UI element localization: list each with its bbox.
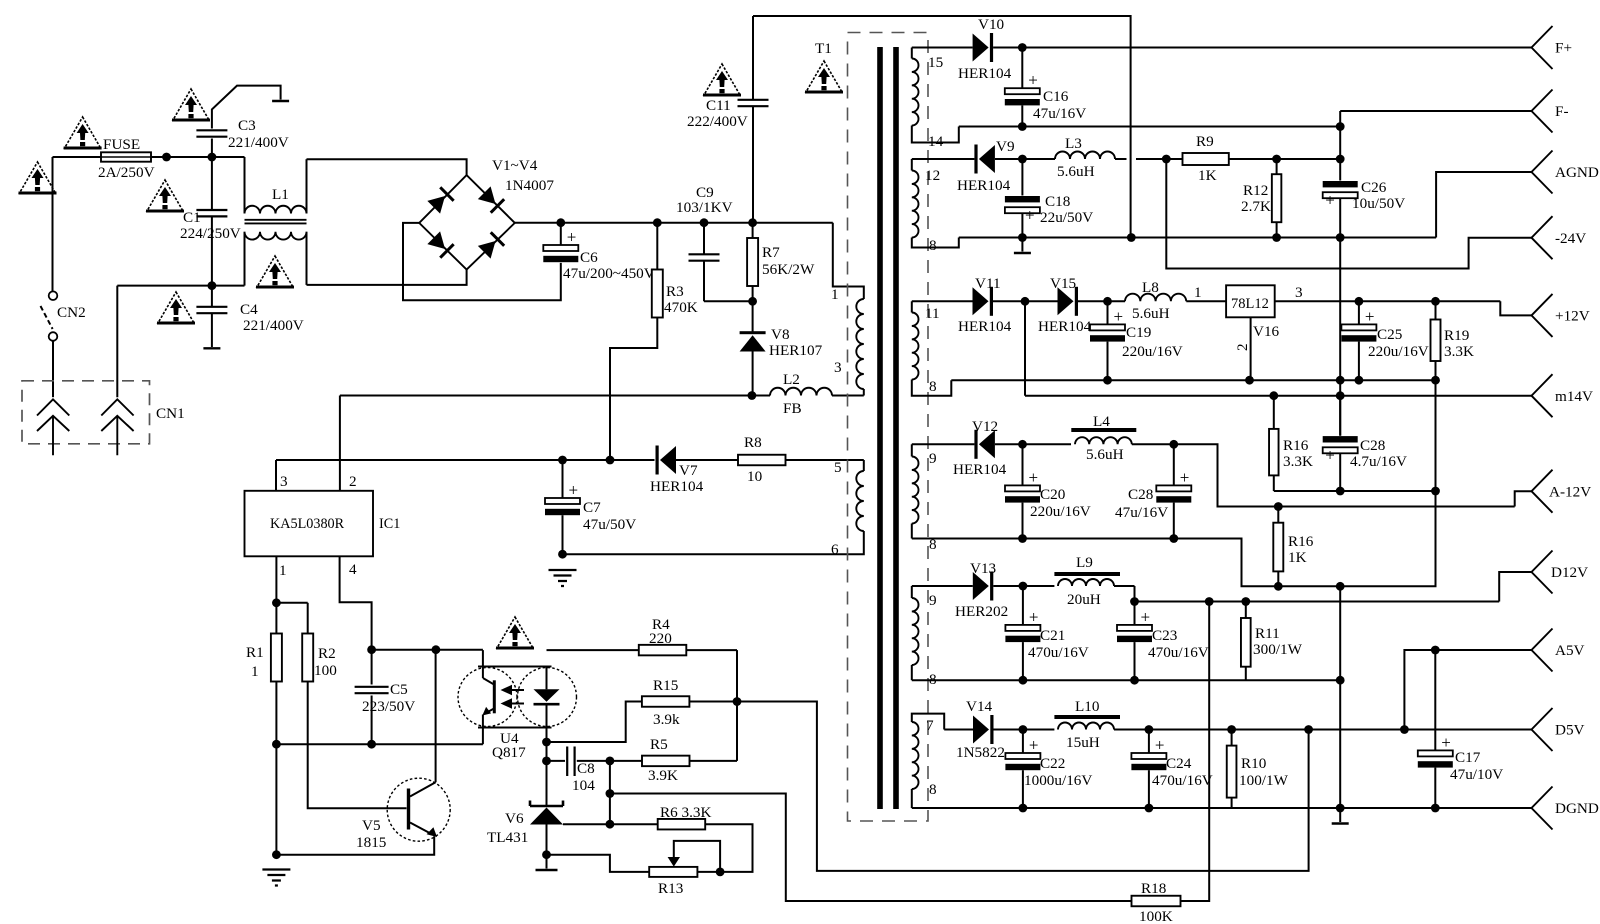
junction R16a top <box>1269 391 1278 400</box>
wire R4 row <box>547 649 639 651</box>
junction R16b top <box>1274 502 1283 511</box>
transformer core bar left <box>877 47 883 809</box>
svg-text:4.7u/16V: 4.7u/16V <box>1350 453 1407 470</box>
C23 plates <box>1117 607 1152 642</box>
junction R15 right <box>733 697 742 706</box>
svg-text:47u/16V: 47u/16V <box>1115 504 1168 521</box>
junction C7 top <box>558 456 567 465</box>
junction C19 top <box>1103 297 1112 306</box>
wire D5V rail <box>1114 729 1532 731</box>
C22 plates <box>1005 736 1040 771</box>
svg-text:1N5822: 1N5822 <box>956 744 1005 761</box>
svg-text:V15: V15 <box>1050 275 1076 292</box>
fuse FUSE 2A/250V <box>101 152 151 161</box>
junction R12 bottom <box>1272 233 1281 242</box>
wire emitter return rail <box>276 743 483 745</box>
connector CN1 dashed box <box>22 381 150 444</box>
junction DGND rail <box>1336 804 1345 813</box>
junction C7 bottom / pin6 <box>558 550 567 559</box>
svg-text:47u/200~450V: 47u/200~450V <box>563 265 655 282</box>
svg-text:15uH: 15uH <box>1066 734 1100 751</box>
warning triangle left of C1 <box>146 180 184 211</box>
svg-text:C4: C4 <box>240 301 258 318</box>
svg-text:L2: L2 <box>783 371 800 388</box>
R13 wiper arrow <box>674 841 720 872</box>
svg-text:+: + <box>567 228 577 247</box>
svg-text:L4: L4 <box>1093 413 1110 430</box>
wire R18 to D12V rail <box>1181 602 1210 902</box>
svg-text:+: + <box>1028 71 1038 90</box>
junction C16 top <box>1018 43 1027 52</box>
wire ref node vertical <box>609 761 611 824</box>
svg-text:C18: C18 <box>1045 193 1071 210</box>
wire DGND rail <box>912 807 1532 809</box>
junction R19 top <box>1431 297 1440 306</box>
wire m14V rail <box>1025 395 1533 397</box>
junction C20 top <box>1018 440 1027 449</box>
transformer T1 dashed box <box>848 33 929 822</box>
capacitor C21 <box>1022 586 1024 624</box>
svg-text:R15: R15 <box>653 677 678 694</box>
svg-text:C28: C28 <box>1128 486 1154 503</box>
output terminal D12V <box>1532 551 1553 594</box>
diode V14 <box>973 715 994 744</box>
output terminal DGND <box>1532 787 1553 830</box>
wire F- lead <box>1340 110 1531 112</box>
junction L3/R9/-24V tap <box>1162 155 1171 164</box>
wire FB line to IC pin2 <box>340 395 770 397</box>
wire to R2 top <box>276 602 307 604</box>
C4 plates <box>196 307 227 313</box>
junction LED cathode / C8 <box>542 757 551 766</box>
warning triangle above U4 <box>496 617 534 648</box>
svg-text:C5: C5 <box>390 681 408 698</box>
capacitor C17 <box>1434 650 1436 750</box>
wire A5V lead <box>1404 650 1531 730</box>
resistor R6 <box>658 819 706 830</box>
diode V8 <box>752 301 754 331</box>
inductor L3 <box>1055 152 1115 160</box>
wire pin8 AGND rail <box>959 237 1436 239</box>
junction C28b bottom <box>1336 487 1345 496</box>
svg-text:9: 9 <box>929 450 937 467</box>
capacitor C24 <box>1148 730 1150 753</box>
resistor R15 <box>642 696 690 707</box>
transformer secondary winding 9-8 (D12V) <box>911 586 913 598</box>
optocoupler U4 <box>458 667 577 728</box>
svg-text:1: 1 <box>1194 284 1202 301</box>
junction R16b bottom <box>1274 582 1283 591</box>
wire D12V rail right <box>1135 601 1500 603</box>
junction C25 top <box>1355 297 1364 306</box>
svg-text:L3: L3 <box>1065 135 1082 152</box>
C6 plates <box>543 228 578 263</box>
C5 plates <box>355 687 389 693</box>
wire CN2 to CN1 pin <box>52 341 54 397</box>
junction ground rail left <box>272 850 281 859</box>
transformer secondary winding 12-8 <box>911 159 913 171</box>
resistor R9 <box>1183 153 1229 165</box>
R3 body <box>652 270 663 318</box>
junction C22 top <box>1019 725 1028 734</box>
wire IC1 pin2 stub <box>339 396 341 491</box>
svg-text:+: + <box>1325 446 1335 465</box>
junction ref/R18 branch <box>606 789 615 798</box>
svg-text:470K: 470K <box>664 299 698 316</box>
R1 body <box>271 634 282 682</box>
output terminal F- <box>1532 90 1553 133</box>
svg-text:R1: R1 <box>246 644 264 661</box>
svg-text:C3: C3 <box>238 117 256 134</box>
svg-text:R5: R5 <box>650 736 668 753</box>
inductor L10 <box>1054 715 1120 719</box>
C3 plates <box>196 130 227 136</box>
junction C23 top <box>1130 597 1139 606</box>
svg-text:C25: C25 <box>1377 326 1402 343</box>
wire C9 bottom to V8 top <box>704 300 753 302</box>
svg-text:HER104: HER104 <box>957 177 1011 194</box>
capacitor C5 <box>371 650 373 685</box>
svg-text:V13: V13 <box>970 560 996 577</box>
svg-text:HER104: HER104 <box>1038 318 1092 335</box>
None <box>656 446 677 475</box>
junction m14V tap <box>1021 297 1030 306</box>
junction 78L12 pin2 <box>1245 376 1254 385</box>
junction C18 top <box>1018 155 1027 164</box>
junction R7/V8/C9 <box>748 297 757 306</box>
capacitor C18 <box>1021 159 1023 196</box>
junction LED cathode / R15 branch <box>542 738 551 747</box>
wire pin14 rail <box>959 126 1340 128</box>
svg-text:R6 3.3K: R6 3.3K <box>660 804 712 821</box>
junction C26 bottom <box>1336 233 1345 242</box>
junction C20 bottom <box>1018 534 1027 543</box>
wire CN1 pin2 up to AC return <box>116 286 118 398</box>
switch CN2 <box>41 291 58 340</box>
terminal bar below C18 <box>1014 252 1031 254</box>
wire pin7 row D5V <box>944 729 973 731</box>
wire C8 to R5 <box>577 760 642 762</box>
wire V5 emitter to ground rail <box>276 836 434 855</box>
svg-text:C6: C6 <box>580 249 598 266</box>
R16b body <box>1273 523 1283 572</box>
junction C22 bottom <box>1019 804 1028 813</box>
wire snubber return to pin8 rail <box>753 16 1131 238</box>
U4 phototransistor <box>482 678 496 716</box>
svg-text:+: + <box>1029 736 1039 755</box>
svg-text:78L12: 78L12 <box>1231 296 1269 312</box>
svg-text:A5V: A5V <box>1555 642 1585 659</box>
C28a plates <box>1156 468 1191 503</box>
svg-text:R19: R19 <box>1444 327 1469 344</box>
svg-text:5.6uH: 5.6uH <box>1132 305 1170 322</box>
svg-text:12: 12 <box>925 167 940 184</box>
svg-text:-24V: -24V <box>1555 230 1586 247</box>
svg-text:3.3K: 3.3K <box>1283 453 1313 470</box>
junction C21 top <box>1019 582 1028 591</box>
resistor R7 <box>752 223 754 238</box>
resistor R1 <box>275 603 277 634</box>
junction C16 bottom <box>1018 122 1027 131</box>
svg-text:22u/50V: 22u/50V <box>1040 209 1093 226</box>
svg-text:470u/16V: 470u/16V <box>1148 644 1209 661</box>
svg-text:1: 1 <box>251 663 259 680</box>
svg-text:FUSE: FUSE <box>103 136 140 153</box>
capacitor C16 <box>1021 48 1023 88</box>
svg-text:C8: C8 <box>577 760 595 777</box>
junction C24 bottom <box>1145 804 1154 813</box>
svg-text:2A/250V: 2A/250V <box>98 164 155 181</box>
wire R15 branch <box>547 702 642 743</box>
svg-text:HER202: HER202 <box>955 603 1008 620</box>
diode V9 <box>974 145 995 174</box>
svg-text:C23: C23 <box>1152 627 1177 644</box>
diode V13 <box>973 572 994 601</box>
svg-text:R13: R13 <box>658 880 683 897</box>
resistor R19 <box>1435 301 1437 319</box>
wire pin15 row F+ <box>912 47 973 49</box>
svg-text:+12V: +12V <box>1555 308 1590 325</box>
wire pin9 row D12V <box>912 585 973 587</box>
svg-text:CN2: CN2 <box>57 304 86 321</box>
R11 body <box>1241 618 1251 667</box>
svg-text:104: 104 <box>572 777 595 794</box>
diode V15 <box>1058 287 1079 316</box>
U4 light arrows <box>501 685 525 709</box>
svg-text:C24: C24 <box>1166 755 1192 772</box>
U4 LED <box>534 689 560 704</box>
junction V5 collector <box>432 645 441 654</box>
junction snubber return <box>1127 233 1136 242</box>
svg-text:+: + <box>569 481 579 500</box>
svg-text:F-: F- <box>1555 103 1569 120</box>
R12 body <box>1272 174 1282 222</box>
C25 plates <box>1341 307 1376 342</box>
svg-text:R7: R7 <box>762 244 780 261</box>
CN1 pin 1 antenna symbol <box>37 399 69 455</box>
svg-text:+: + <box>1025 206 1035 225</box>
IC U1 KA5L0380R <box>245 491 374 557</box>
junction pin4/C5 <box>367 645 376 654</box>
svg-text:+: + <box>1325 191 1335 210</box>
CN1 pin 2 antenna symbol <box>101 399 133 455</box>
C16 plates <box>1005 71 1040 106</box>
svg-text:300/1W: 300/1W <box>1253 641 1303 658</box>
svg-text:F+: F+ <box>1555 40 1572 57</box>
svg-text:+: + <box>1155 736 1165 755</box>
junction C3/C1 on AC line <box>208 153 217 162</box>
wire DGND long vertical <box>1339 586 1341 808</box>
terminal bar below V6 <box>536 869 558 871</box>
terminal bar below DGND <box>1332 822 1349 824</box>
junction R3 feed <box>606 456 615 465</box>
svg-text:V12: V12 <box>972 418 998 435</box>
svg-text:100/1W: 100/1W <box>1239 772 1289 789</box>
resistor R4 <box>639 645 687 656</box>
junction C9 top <box>700 218 709 227</box>
transistor V5 <box>387 778 450 841</box>
capacitor C3 <box>211 139 213 158</box>
wire L1 bottom to bridge AC2 <box>307 270 467 285</box>
svg-text:HER104: HER104 <box>958 65 1012 82</box>
wire L4 out jog to R16b rail <box>1174 444 1515 506</box>
svg-text:C19: C19 <box>1126 324 1151 341</box>
svg-text:221/400V: 221/400V <box>243 317 304 334</box>
svg-text:1N4007: 1N4007 <box>505 177 554 194</box>
R10 body <box>1227 746 1237 798</box>
diode V12 <box>974 430 995 459</box>
wire R6 right loop <box>705 824 752 872</box>
wire R18 branch <box>610 794 1132 902</box>
warning triangle near T1 <box>805 61 843 92</box>
svg-text:V16: V16 <box>1253 323 1280 340</box>
diode V3 (bridge bottom-left) <box>427 231 455 259</box>
inductor L2 <box>770 388 832 396</box>
inductor L8 <box>1125 294 1186 302</box>
svg-text:+: + <box>1029 468 1039 487</box>
C26 plates <box>1323 181 1358 210</box>
diode V4 (bridge bottom-right) <box>478 231 506 259</box>
junction R10 top <box>1227 725 1236 734</box>
potentiometer R13 <box>649 867 697 877</box>
inductor L4 <box>1071 428 1136 432</box>
capacitor C26 <box>1339 127 1341 181</box>
svg-text:R8: R8 <box>744 434 762 451</box>
resistor R11 <box>1245 602 1247 619</box>
junction C18 bottom <box>1018 233 1027 242</box>
wire C5 node rail <box>372 649 483 651</box>
capacitor C19 <box>1107 301 1109 324</box>
svg-text:+: + <box>1114 307 1124 326</box>
svg-text:2: 2 <box>349 473 357 490</box>
wire AGND lead <box>1436 172 1531 238</box>
wire D12V lead step <box>1499 572 1531 602</box>
svg-text:R10: R10 <box>1241 755 1267 772</box>
svg-text:CN1: CN1 <box>156 405 185 422</box>
C28b plates <box>1323 436 1358 465</box>
C20 plates <box>1005 468 1040 503</box>
wire L1 top to bridge AC1 <box>307 159 467 175</box>
capacitor C22 <box>1022 730 1024 753</box>
diode V11 <box>973 287 994 316</box>
output terminal +12V <box>1532 294 1553 337</box>
junction C8/R5/ref node <box>606 757 615 766</box>
svg-text:100K: 100K <box>1139 908 1173 924</box>
junction C28b top rail <box>1336 391 1345 400</box>
resistor R2 <box>302 634 313 682</box>
svg-text:220u/16V: 220u/16V <box>1030 503 1091 520</box>
svg-text:3: 3 <box>1295 284 1303 301</box>
junction R18 top <box>1205 597 1214 606</box>
svg-text:8: 8 <box>929 781 937 798</box>
svg-text:5.6uH: 5.6uH <box>1086 446 1124 463</box>
svg-text:56K/2W: 56K/2W <box>762 261 815 278</box>
wire +12V lead step <box>1500 301 1532 315</box>
svg-text:R18: R18 <box>1141 880 1167 897</box>
svg-text:14: 14 <box>928 133 944 150</box>
svg-text:V14: V14 <box>966 698 993 715</box>
svg-text:V5: V5 <box>362 817 381 834</box>
transformer T1 primary winding 5-6 <box>785 459 864 461</box>
regulator pin2 stub <box>1250 317 1252 380</box>
svg-text:C16: C16 <box>1043 88 1069 105</box>
wire pin11 row +12V <box>912 300 973 302</box>
output terminal A-12V <box>1532 470 1553 513</box>
C18 ground stub <box>1021 238 1023 252</box>
svg-text:10: 10 <box>747 468 763 485</box>
capacitor C25 <box>1358 301 1360 324</box>
svg-text:V9: V9 <box>996 138 1015 155</box>
svg-text:224/250V: 224/250V <box>180 225 241 242</box>
C18 plates <box>1005 196 1040 225</box>
resistor R16 1K <box>1277 507 1279 523</box>
R19 body <box>1431 320 1441 362</box>
wire A-12V lead step <box>1515 491 1532 506</box>
svg-text:10u/50V: 10u/50V <box>1352 195 1405 212</box>
wire V6 ref rail to R6 <box>563 823 658 825</box>
transformer core bar right <box>893 47 899 809</box>
output terminal D5V <box>1532 708 1553 751</box>
R7 body <box>747 238 758 286</box>
svg-text:223/50V: 223/50V <box>362 698 415 715</box>
junction C23 bottom <box>1130 676 1139 685</box>
svg-text:+: + <box>1365 307 1375 326</box>
junction C25 bottom <box>1355 376 1364 385</box>
resistor R10 <box>1231 730 1233 746</box>
wire pin8 A-12V return rail <box>912 491 1436 586</box>
junction feedback tap <box>1304 725 1313 734</box>
svg-text:R2: R2 <box>318 645 336 662</box>
wire D12V rail <box>1134 586 1136 602</box>
svg-text:6: 6 <box>831 541 839 558</box>
wire AC return <box>117 285 244 287</box>
junction V6 anode <box>542 850 551 859</box>
wire feedback from R15 node to D5V rail <box>737 702 1309 871</box>
svg-text:20uH: 20uH <box>1067 591 1101 608</box>
capacitor C28 47u <box>1173 444 1175 485</box>
transformer secondary winding 15-14 <box>911 48 913 59</box>
DGND stub <box>1339 808 1341 822</box>
capacitor C6 <box>560 223 562 245</box>
svg-text:AGND: AGND <box>1555 164 1599 181</box>
svg-text:V10: V10 <box>978 16 1005 33</box>
wire U4 LED anode <box>546 667 548 690</box>
C17 plates <box>1418 733 1453 768</box>
svg-text:+: + <box>1441 733 1451 752</box>
junction R19 bottom <box>1431 376 1440 385</box>
wire m14V branch <box>1024 301 1026 395</box>
svg-text:HER104: HER104 <box>958 318 1012 335</box>
C4 bottom terminal bar <box>203 347 220 349</box>
svg-text:C26: C26 <box>1361 179 1387 196</box>
C11 plates <box>738 100 769 106</box>
wire pin8 +12V return rail <box>951 379 1435 381</box>
svg-text:L8: L8 <box>1142 279 1159 296</box>
transformer secondary winding 7-8 (D5V) <box>912 714 944 730</box>
junction C26 node <box>1336 155 1345 164</box>
C19 plates <box>1090 307 1125 342</box>
svg-text:L10: L10 <box>1075 698 1100 715</box>
svg-text:3: 3 <box>834 359 842 376</box>
junction C5 bottom <box>367 740 376 749</box>
capacitor C23 <box>1134 602 1136 625</box>
svg-text:2: 2 <box>1234 343 1251 351</box>
svg-text:V7: V7 <box>679 462 698 479</box>
svg-text:47u/10V: 47u/10V <box>1450 766 1503 783</box>
svg-text:1: 1 <box>279 562 287 579</box>
wire IC1 pin4 to C5 node <box>340 556 372 649</box>
regulator V16 78L12 <box>1226 285 1275 317</box>
